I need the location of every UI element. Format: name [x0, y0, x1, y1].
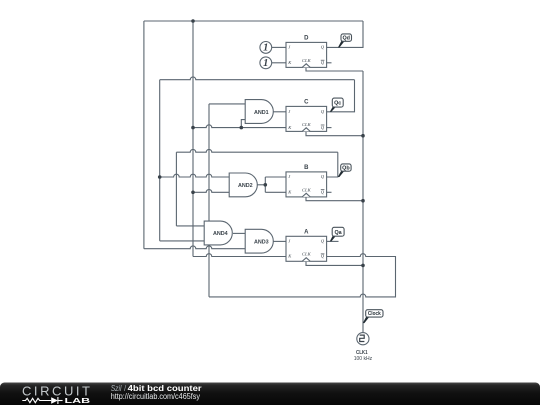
junction C clk: [361, 134, 365, 138]
svg-text:B: B: [304, 165, 309, 171]
svg-text:CLK: CLK: [302, 122, 312, 127]
svg-text:Clock: Clock: [368, 311, 381, 317]
svg-text:D: D: [304, 36, 309, 42]
flip-flop A: [286, 229, 327, 261]
wire AND1 top input (Qbar-a): [209, 103, 245, 105]
junction dots: [158, 19, 365, 267]
svg-text:CLK: CLK: [302, 187, 312, 192]
junction A clk: [361, 264, 365, 268]
wire Qd output to riser: [327, 21, 363, 47]
wire AND4 output to AND3: [233, 232, 245, 234]
flag Qb: [338, 164, 351, 177]
junction B clk: [361, 199, 365, 203]
wire Qd top bus: [144, 20, 363, 22]
wire C K input line (Qd): [193, 125, 286, 128]
wire Qbar-d stub: [327, 62, 332, 64]
flip-flop C: [286, 100, 327, 132]
wire C clk to clock bus: [306, 132, 363, 136]
junction x193 top bus: [191, 19, 195, 23]
wire Qb vertical x176: [175, 152, 177, 226]
wire Qd left vertical x144: [143, 21, 145, 249]
AND gate AND2: [229, 173, 257, 197]
wire C J input from AND1: [273, 111, 286, 113]
wire AND2 output branch vertical: [264, 177, 266, 192]
flag Qd: [338, 34, 352, 48]
svg-text:Qb: Qb: [342, 166, 350, 172]
junction AND2 bottom line at x193: [191, 191, 195, 195]
wire Qa output stub: [327, 240, 339, 242]
flip-flop B: [286, 165, 327, 197]
wire Qbar-a long feedback: [209, 254, 396, 297]
flag Qa: [330, 227, 344, 241]
wire Qc output riser: [327, 80, 355, 112]
wire AND2 output: [258, 184, 266, 186]
wire D K input: [272, 62, 286, 64]
AND gate AND3: [245, 229, 273, 253]
wire AND3 bottom input line (Qd): [144, 246, 245, 249]
wire D clk to clock bus: [306, 67, 363, 71]
logic 1 source V1: [260, 42, 272, 54]
svg-text:Qd: Qd: [342, 36, 350, 42]
clock source CLK1: [354, 333, 373, 362]
wire D J input: [272, 46, 286, 48]
wire Qb output riser: [327, 152, 338, 177]
svg-text:Qc: Qc: [334, 101, 341, 107]
svg-text:AND1: AND1: [254, 110, 269, 116]
junction AND2 top line at x160: [158, 175, 162, 179]
svg-text:1: 1: [263, 58, 268, 69]
wire clock vertical bus: [362, 71, 364, 333]
svg-text:AND2: AND2: [238, 183, 253, 189]
wire B clk to clock bus: [306, 197, 363, 201]
flag Qc: [330, 98, 343, 112]
wire A clk to clock bus: [306, 261, 363, 265]
svg-text:1: 1: [263, 43, 268, 54]
AND gate AND4: [204, 221, 232, 245]
wire Qbar-c stub: [327, 127, 332, 129]
wire AND4 bottom input: [160, 240, 205, 242]
svg-text:100 kHz: 100 kHz: [354, 356, 373, 362]
logic 1 source V2: [260, 57, 272, 69]
svg-text:AND4: AND4: [213, 231, 228, 237]
footer logo resistor and diode: [22, 397, 62, 404]
wire B J input: [265, 176, 286, 178]
junction AND2 output: [264, 183, 268, 187]
svg-text:C: C: [304, 100, 309, 106]
svg-text:CLK: CLK: [302, 58, 312, 63]
wire x209 vertical (Qbar-a): [208, 104, 210, 297]
svg-text:AND3: AND3: [254, 239, 269, 245]
wire Qc vertical x160: [159, 80, 161, 241]
junction AND1 jog on KC line: [240, 126, 244, 130]
wire Qc horizontal bus: [160, 77, 355, 80]
svg-text:A: A: [304, 229, 309, 235]
junction KC line at x193: [191, 126, 195, 130]
wire AND4 top input: [176, 225, 204, 227]
wire AND3 output to A: [273, 240, 286, 242]
wire AND1 lower input jog: [241, 120, 245, 128]
svg-text:CLK: CLK: [302, 252, 312, 257]
AND gate AND1: [245, 100, 273, 124]
wire AND2 bottom input line (Qd): [193, 190, 229, 193]
wire A K input line (Qd): [193, 254, 286, 257]
svg-text:http://circuitlab.com/c465fsy: http://circuitlab.com/c465fsy: [111, 392, 200, 401]
wire Qd x193 vertical: [192, 21, 194, 257]
wire AND2 top input line (Qc): [160, 174, 230, 177]
wire B K input: [265, 191, 286, 193]
wire Qb horizontal bus: [176, 149, 337, 152]
flag Clock: [363, 310, 383, 323]
flip-flop D: [286, 36, 327, 68]
svg-text:LAB: LAB: [65, 396, 91, 405]
svg-text:Qa: Qa: [334, 230, 342, 236]
wire Qbar-b stub: [327, 191, 332, 193]
